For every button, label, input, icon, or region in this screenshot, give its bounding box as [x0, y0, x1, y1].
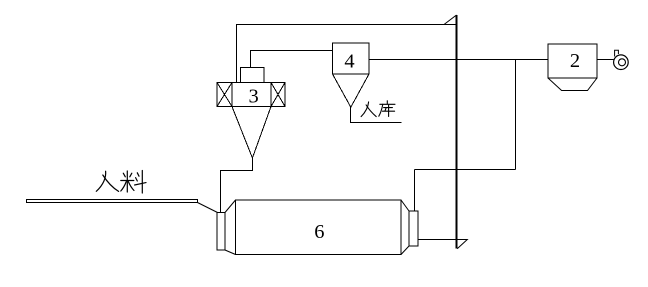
- hopper 4 cone: [333, 74, 370, 107]
- svg-text:6: 6: [314, 221, 324, 243]
- wire from hopper 4 to box 2: [369, 59, 548, 61]
- fan outlet tab: [615, 50, 619, 56]
- wire cyclone underflow to drum left cap: [221, 158, 253, 213]
- label 入料 (feed) drawn as strokes: [96, 171, 146, 194]
- bottom break flag: [457, 240, 468, 249]
- drum 6 right taper: [401, 200, 409, 255]
- wire vertical into drum right cap: [414, 170, 416, 212]
- feed chute slope: [198, 203, 218, 213]
- cyclone C3 right X box: [271, 83, 285, 107]
- wire drum discharge to riser: [419, 239, 458, 241]
- feed chute: [27, 200, 198, 203]
- cyclone C3 cone: [232, 107, 271, 159]
- cyclone C3 body rect: [232, 83, 271, 107]
- wire horizontal to drum right inlet: [415, 169, 516, 171]
- svg-text:3: 3: [248, 85, 258, 107]
- drum 6 left taper: [225, 200, 236, 255]
- drum 6 body: [236, 200, 402, 255]
- fan inner circle: [619, 59, 626, 66]
- box 2 body rect: [548, 44, 597, 78]
- label 入库 (to storage) drawn as strokes: [361, 101, 395, 117]
- drum 6 right cap: [409, 211, 418, 246]
- wire from cyclone top outlet to hopper 4: [251, 51, 333, 68]
- drum 6 left cap: [217, 213, 225, 251]
- wire from box 2 to fan: [597, 59, 614, 61]
- main riser duct (thick vertical line): [456, 15, 458, 249]
- top break flag: [444, 15, 457, 25]
- fan outer circle: [614, 55, 629, 70]
- wire riser branch down from box2 line: [515, 60, 517, 170]
- cyclone C3 left X box: [217, 83, 232, 107]
- box 2 trapezoid bottom: [548, 78, 597, 91]
- hopper 4 body rect: [333, 43, 370, 74]
- svg-text:4: 4: [344, 50, 354, 72]
- wire top duct from cyclone 3 to main riser: [237, 25, 457, 84]
- svg-text:2: 2: [570, 50, 580, 72]
- wire hopper 4 underflow with 入库 underline: [351, 107, 402, 123]
- cyclone C3 top inlet rect: [241, 68, 265, 83]
